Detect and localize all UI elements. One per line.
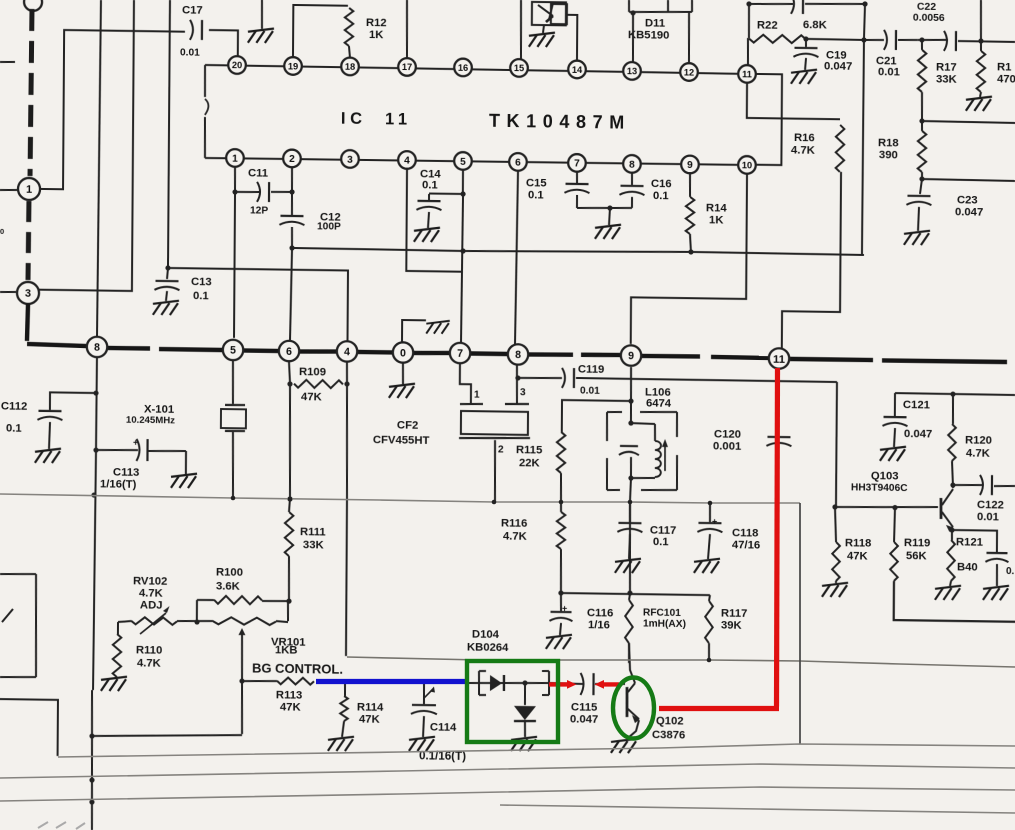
wire [627,503,633,596]
wire [577,205,632,211]
pin 16 [454,59,472,77]
wire [755,74,782,165]
wire [895,391,1015,398]
label BG CONTROL [252,661,343,677]
svg-text:1K: 1K [369,29,384,41]
bus wire [470,351,508,356]
bottom rail 1 [58,744,1015,757]
svg-text:C22: C22 [917,1,936,12]
wire [494,440,497,501]
svg-text:TK10487M: TK10487M [489,111,631,133]
svg-text:C23: C23 [957,194,978,206]
resistor R111 [284,512,326,604]
wire [234,192,235,338]
capacitor C22 [913,1,957,51]
bus wire [357,350,393,355]
svg-text:0.01: 0.01 [878,66,900,78]
transistor Q102 [611,643,686,754]
svg-text:0.1: 0.1 [422,179,438,191]
capacitor C123 [952,530,1015,600]
resistor R12 [345,8,387,59]
svg-text:7: 7 [457,348,463,360]
capacitor C115 [570,673,599,726]
edge label [0,227,4,236]
svg-text:R17: R17 [936,61,957,73]
svg-text:100P: 100P [317,221,341,232]
svg-text:1mH(AX): 1mH(AX) [643,618,686,630]
wire [461,194,463,344]
capacitor C11 [232,167,295,217]
svg-text:6: 6 [515,158,521,169]
svg-text:C17: C17 [182,4,203,16]
bottom rail 4 [500,805,1015,813]
svg-text:1K: 1K [709,214,724,226]
pin 2 [283,150,301,168]
svg-text:13: 13 [627,66,637,76]
transistor D10 pack [532,2,567,25]
svg-text:47/16: 47/16 [732,539,760,551]
svg-text:470: 470 [997,73,1015,85]
capacitor C121 [880,393,933,462]
svg-text:C113: C113 [113,466,139,478]
svg-text:+: + [562,603,567,613]
resistor R17 [918,40,958,120]
resistor R110 [101,622,163,692]
resistor R115 [516,431,566,501]
label L106 [645,386,672,409]
wire [630,367,633,422]
bus node 0 [393,342,414,363]
pin 5 [454,152,472,170]
wire [290,248,292,341]
capacitor C116 [546,594,614,650]
capacitor C122 [950,475,1015,524]
svg-text:47K: 47K [847,550,869,562]
svg-text:0.1: 0.1 [193,290,209,302]
wire [286,361,293,512]
svg-text:47K: 47K [301,391,323,403]
svg-text:0.1: 0.1 [528,189,544,201]
svg-text:C119: C119 [578,363,604,375]
bus node 5 [223,340,244,361]
svg-text:16: 16 [458,63,468,73]
svg-text:R121: R121 [956,536,983,548]
svg-text:47K: 47K [280,701,302,713]
thick dashed trunk line [25,201,31,280]
bus wire [159,347,222,352]
bus node 8 [87,337,108,358]
svg-text:0.047: 0.047 [955,206,983,218]
svg-text:C114: C114 [430,721,457,733]
svg-text:HH3T9406C: HH3T9406C [851,482,908,494]
svg-text:12P: 12P [250,205,268,216]
bus node 7 [450,343,471,364]
svg-text:R114: R114 [357,701,384,713]
svg-text:R12: R12 [366,17,387,29]
wire [209,30,238,56]
svg-text:0.01: 0.01 [180,47,200,58]
label VR101 1KB [271,636,306,656]
svg-text:C120: C120 [714,428,741,440]
svg-text:CF2: CF2 [397,419,418,431]
svg-text:R120: R120 [965,434,992,446]
svg-text:C117: C117 [650,524,676,536]
wire [242,680,277,683]
svg-text:C122: C122 [977,499,1004,511]
wire [293,5,348,59]
IC 11 body [204,65,747,166]
bottom rail 2 [0,764,1015,778]
potentiometer wiper [211,617,288,735]
capacitor C13 [153,268,212,316]
svg-text:6474: 6474 [646,397,672,409]
resistor R116 [500,511,565,596]
pin label 3 [520,387,526,398]
wire [835,382,838,506]
wire [406,169,462,272]
svg-text:BG CONTROL.: BG CONTROL. [252,661,343,677]
wire base line [832,504,938,511]
grey rail y≈500 [0,494,800,503]
wire [567,15,578,61]
svg-text:8: 8 [629,160,635,171]
pin 13 [623,62,641,80]
green annotation box around D104 [467,661,558,742]
wire [860,4,867,254]
capacitor C21 [864,30,918,79]
svg-text:1KB: 1KB [275,644,298,656]
svg-text:9: 9 [628,350,634,362]
wire [747,83,840,119]
svg-text:7: 7 [574,159,580,170]
pin 15 [510,59,528,77]
junction dots on rails [231,496,713,663]
svg-text:RFC101: RFC101 [643,607,681,619]
svg-text:R113: R113 [276,689,302,701]
diode D104 pack [468,670,552,752]
wire [551,683,625,685]
svg-text:+: + [712,516,717,526]
svg-text:3: 3 [25,288,31,300]
svg-text:C16: C16 [651,178,672,190]
wire [168,0,170,266]
ground [595,208,621,239]
svg-text:6: 6 [286,346,292,358]
thick dashed trunk line [30,9,32,176]
wire [0,61,15,63]
svg-text:C3876: C3876 [652,729,685,741]
svg-text:0.: 0. [1006,566,1015,577]
capacitor C17 [180,4,203,58]
svg-text:0: 0 [0,227,4,236]
svg-text:0.001: 0.001 [713,440,741,452]
pin 12 [680,63,698,81]
resistor R109 [294,366,350,404]
crystal X-101 [125,358,246,497]
edge marks [38,822,85,829]
green annotation ellipse around Q102 [613,678,654,739]
bus wire [299,351,337,352]
svg-text:X-101: X-101 [144,403,174,415]
ground [529,25,555,47]
resistor R18 [878,120,927,178]
red arrow marks at C115 [549,680,619,689]
wire [460,363,471,403]
capacitor C20 [746,0,867,15]
pin 10 [738,156,756,174]
svg-text:0.01: 0.01 [977,511,999,523]
wire [0,699,58,756]
pin 14 [568,61,586,79]
bus wire [107,346,150,351]
svg-text:R116: R116 [501,517,527,529]
svg-text:33K: 33K [303,539,325,551]
svg-text:3: 3 [520,387,526,398]
capacitor C113 [96,437,198,492]
grey rail y≈660 [347,657,1015,667]
svg-text:CFV455HT: CFV455HT [373,434,430,447]
capacitor C23 [904,179,984,246]
pin 18 [341,58,359,76]
node 1 [18,178,40,200]
svg-text:C13: C13 [191,276,212,288]
svg-text:56K: 56K [906,550,928,562]
svg-text:12: 12 [684,67,694,77]
wire [748,4,750,38]
svg-text:390: 390 [879,149,898,161]
svg-text:R18: R18 [878,137,899,149]
ground [402,320,450,344]
resistor R16 [791,124,845,172]
svg-text:4.7K: 4.7K [966,447,991,459]
svg-text:R111: R111 [300,526,326,538]
ground [248,0,274,43]
capacitor C16 [619,173,671,209]
svg-text:8: 8 [94,342,100,354]
wire rail [560,502,562,512]
wire [628,420,655,426]
ground [966,92,992,111]
svg-text:R109: R109 [299,366,326,378]
ground [389,363,415,398]
svg-text:22K: 22K [519,457,541,469]
bus wire [413,352,450,353]
svg-text:2: 2 [289,154,295,165]
pin label 2 [498,444,504,455]
wire [629,478,632,501]
svg-text:8: 8 [515,349,521,361]
svg-text:4.7K: 4.7K [137,657,162,669]
wire [90,357,99,690]
bus node 4 [337,341,358,362]
svg-text:D11: D11 [645,17,665,29]
wire [630,10,636,63]
label C114 value [419,750,466,764]
wire [429,169,466,196]
svg-text:10: 10 [742,160,752,170]
svg-text:R22: R22 [757,19,778,31]
svg-text:IC 11: IC 11 [341,110,412,129]
wire [40,30,185,191]
wire [39,0,134,291]
pin 3 [341,150,359,168]
svg-text:R16: R16 [794,132,815,144]
wire [345,362,348,656]
svg-text:3: 3 [347,155,353,166]
ceramic filter CF2 [373,402,530,449]
wire [688,12,691,63]
svg-text:C121: C121 [903,399,930,411]
wire [562,397,634,433]
svg-text:1: 1 [232,154,238,165]
svg-text:0.047: 0.047 [904,428,932,440]
svg-text:R1: R1 [997,61,1012,73]
svg-text:4: 4 [404,156,410,167]
wire [806,39,864,40]
pin 9 [681,156,699,174]
svg-text:ADJ: ADJ [140,599,163,611]
svg-text:B40: B40 [957,561,978,573]
resistor R100 [194,566,288,626]
wire [344,683,346,696]
svg-text:33K: 33K [936,73,958,85]
svg-text:R115: R115 [516,444,542,456]
svg-text:18: 18 [345,62,355,72]
highlighted blue wire BG control [316,679,467,684]
wire [747,38,749,65]
pin 20 [228,56,246,74]
wire [918,37,948,43]
svg-text:C112: C112 [1,400,27,412]
bus from node 3 [27,304,86,346]
pin label 1 [474,389,480,400]
svg-text:11: 11 [773,354,785,366]
resistor R15 [977,41,1015,93]
svg-text:19: 19 [288,61,298,71]
wire [289,245,864,259]
capacitor C117 [615,503,677,574]
bottom rail 3 [0,787,1015,801]
pin 17 [398,58,416,76]
pin 11 [738,65,756,83]
wire [520,0,523,60]
resistor R118 [822,507,872,598]
svg-text:17: 17 [402,62,412,72]
svg-text:Q102: Q102 [656,715,684,727]
wire [234,167,236,193]
svg-text:3.6K: 3.6K [216,580,241,592]
capacitor C19 [791,40,852,85]
capacitor C114 [409,683,457,752]
resistor R120 [948,394,992,489]
bus node 6 [279,341,300,362]
svg-text:0.047: 0.047 [824,60,852,72]
bus node 8b [508,344,529,365]
wire [919,176,1015,183]
svg-text:4: 4 [344,346,350,358]
label D104 [467,628,509,654]
svg-text:R118: R118 [845,537,871,549]
svg-text:10.245MHz: 10.245MHz [126,415,175,427]
svg-text:9: 9 [687,160,693,171]
pin 7 [568,154,586,172]
svg-text:RV102: RV102 [133,575,167,587]
wire [561,593,710,595]
svg-text:KB0264: KB0264 [467,641,509,654]
svg-text:0: 0 [400,347,406,359]
capacitor C14 [414,168,442,242]
svg-text:1: 1 [26,184,32,196]
capacitor C118 [694,503,761,574]
svg-text:R110: R110 [136,644,162,656]
svg-text:R117: R117 [721,607,747,619]
resistor R14 [686,173,728,255]
node 3 [17,282,39,304]
bus wire [243,348,279,353]
svg-text:11: 11 [742,69,752,79]
svg-text:4.7K: 4.7K [791,144,816,156]
capacitor C120 [713,428,792,453]
svg-text:2: 2 [498,444,504,455]
connector node top [24,0,42,11]
wire [165,265,348,342]
svg-text:0.047: 0.047 [570,713,598,725]
resistor R119 [890,508,930,582]
variable resistor RV102 [118,575,212,635]
svg-text:5: 5 [460,157,466,168]
wire [782,171,841,350]
capacitor C15 [526,171,590,208]
bus wire [641,356,700,357]
diode D11 box [629,0,692,13]
inductor L106 box [606,411,677,491]
wire [0,291,16,293]
svg-text:0.0056: 0.0056 [913,12,945,23]
svg-text:0.1: 0.1 [653,190,669,202]
transistor Q103 [851,470,954,532]
wire [291,167,294,215]
wire [949,527,954,540]
wire [958,38,1015,44]
bus wire [711,355,768,360]
bus node 9 [621,345,642,366]
pin 1 [226,149,244,167]
svg-text:KB5190: KB5190 [628,29,670,42]
svg-text:1/16: 1/16 [588,619,610,631]
svg-text:47K: 47K [359,713,381,725]
highlighted red wire from node 11 [659,368,779,709]
inductor coil [655,424,669,477]
wire [515,365,520,404]
resistor R22 [749,18,828,43]
capacitor C12 [279,211,341,249]
bus wire [882,360,1007,362]
inductor RFC101 [625,594,686,664]
component box [0,574,37,678]
svg-text:1: 1 [474,389,480,400]
resistor R117 [705,595,748,660]
svg-text:1/16(T): 1/16(T) [100,478,137,491]
svg-text:39K: 39K [721,619,743,631]
wire [515,171,518,345]
svg-text:5: 5 [230,345,236,357]
wire [0,189,17,191]
pin 8 [623,155,641,173]
capacitor C112 [1,392,96,464]
bus wire [790,359,873,360]
svg-text:4.7K: 4.7K [139,587,164,599]
svg-text:20: 20 [232,60,242,70]
